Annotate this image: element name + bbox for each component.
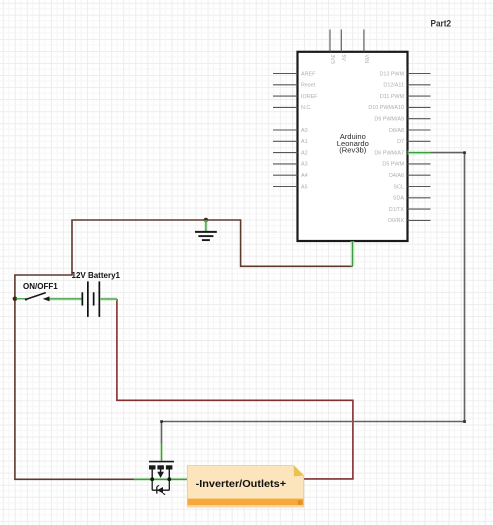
- wire bend points: [463, 151, 466, 154]
- svg-text:D7: D7: [397, 139, 404, 145]
- pole stub: [16, 298, 26, 300]
- svg-text:AREF: AREF: [301, 71, 316, 77]
- svg-text:A0: A0: [301, 128, 308, 134]
- source wire (green): [134, 478, 188, 481]
- substrate arrow: [160, 470, 162, 473]
- svg-text:SCL: SCL: [394, 184, 405, 190]
- lever: [26, 293, 46, 300]
- gate bar: [149, 461, 174, 463]
- svg-text:Part2: Part2: [431, 19, 452, 29]
- wire: battery-/switch net (brown): [15, 220, 353, 299]
- wire: battery+ to inverter+ (dark red): [117, 299, 353, 479]
- svg-text:D1/TX: D1/TX: [389, 207, 405, 213]
- wire: D6 PWM to MOSFET gate (dark gray): [162, 153, 465, 444]
- svg-text:ON/OFF1: ON/OFF1: [23, 282, 58, 291]
- svg-text:D6 PWM/A7: D6 PWM/A7: [374, 150, 404, 156]
- U1 right pins D13-D0: [408, 74, 431, 221]
- transistor Q1 (MOSFET): [134, 443, 188, 495]
- svg-text:D5 PWM: D5 PWM: [382, 162, 404, 168]
- svg-text:D4/A6: D4/A6: [389, 173, 404, 179]
- switch ON/OFF1: [16, 282, 81, 302]
- channel segments: [149, 465, 156, 469]
- note/label box -Inverter/Outlets+: [187, 466, 303, 508]
- U1 bottom pin GND (connected, green): [351, 241, 355, 266]
- battery 12V Battery1: [72, 271, 121, 317]
- svg-text:5V: 5V: [340, 55, 346, 62]
- IC U1 Arduino Leonardo (Rev3b) body: [298, 52, 408, 241]
- svg-text:Reset: Reset: [301, 83, 316, 89]
- svg-text:D12/A11: D12/A11: [383, 83, 404, 89]
- svg-text:D13 PWM: D13 PWM: [379, 71, 404, 77]
- U1 top pins 3V3/5V/VIN: [330, 30, 364, 52]
- bars: [82, 292, 84, 305]
- junction: ground tap: [204, 218, 209, 223]
- right terminal stub: [100, 297, 117, 300]
- svg-text:A5: A5: [301, 184, 308, 190]
- svg-text:-Inverter/Outlets+: -Inverter/Outlets+: [196, 479, 287, 490]
- throw stub with arrow: [48, 297, 82, 300]
- U1 left pin labels: [301, 71, 318, 190]
- U1 left pins AREF/Reset/IOREF/N.C./A0-A5: [273, 74, 298, 187]
- gate stub (green): [160, 443, 163, 461]
- U1 value label Arduino Leonardo (Rev3b): [337, 132, 369, 155]
- svg-text:VIN: VIN: [363, 55, 369, 64]
- svg-text:D0/RX: D0/RX: [388, 218, 404, 224]
- junction: switch pole: [13, 297, 18, 302]
- svg-text:A3: A3: [301, 162, 308, 168]
- U1 top pin labels: [329, 55, 369, 64]
- U1 pin D6 PWM/A7 (connected, green): [408, 151, 431, 155]
- svg-text:SDA: SDA: [393, 196, 404, 202]
- svg-text:A2: A2: [301, 150, 308, 156]
- U1 right pin labels: [368, 71, 404, 224]
- svg-text:IOREF: IOREF: [301, 94, 318, 100]
- svg-text:D10 PWM/A10: D10 PWM/A10: [368, 105, 404, 111]
- svg-text:A4: A4: [301, 173, 308, 179]
- source/drain legs: [151, 470, 153, 480]
- svg-text:D8/A8: D8/A8: [389, 128, 404, 134]
- svg-text:3V3: 3V3: [329, 55, 335, 64]
- svg-text:A1: A1: [301, 139, 308, 145]
- ground symbol: [195, 220, 217, 240]
- wire: switch to MOSFET source (brown, bottom left): [15, 299, 135, 480]
- body diode: [151, 479, 153, 490]
- svg-text:N.C.: N.C.: [301, 105, 312, 111]
- svg-text:12V Battery1: 12V Battery1: [72, 271, 121, 280]
- svg-text:D9 PWM/A9: D9 PWM/A9: [374, 117, 404, 123]
- svg-text:(Rev3b): (Rev3b): [339, 146, 366, 155]
- svg-text:D11 PWM: D11 PWM: [380, 94, 405, 100]
- junctions: [150, 477, 154, 481]
